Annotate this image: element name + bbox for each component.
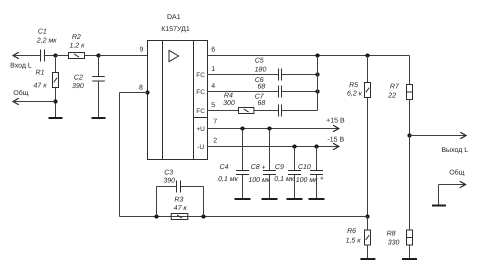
resistor R3	[171, 214, 188, 220]
terminal Общ (left arrow)	[13, 99, 18, 105]
svg-text:22: 22	[387, 92, 396, 99]
svg-text:Общ: Общ	[13, 89, 28, 97]
svg-text:R3: R3	[174, 197, 183, 204]
svg-text:100 мк: 100 мк	[248, 177, 270, 184]
svg-text:1: 1	[211, 66, 215, 73]
ground under C8	[262, 198, 278, 200]
svg-text:1,5 к: 1,5 к	[346, 238, 362, 245]
svg-text:2,2 мк: 2,2 мк	[36, 37, 57, 44]
wire C8 to ground	[269, 175, 271, 199]
capacitor C2	[92, 77, 105, 82]
svg-text:6: 6	[211, 46, 215, 53]
terminal -15 В arrow	[334, 144, 339, 150]
capacitor C9 top stem	[294, 147, 296, 171]
node C8 tap	[267, 126, 271, 130]
svg-text:+: +	[262, 164, 266, 171]
svg-text:R1: R1	[36, 69, 45, 76]
svg-text:68: 68	[258, 100, 266, 107]
wire Общ terminal to node C	[13, 101, 56, 103]
svg-text:R4: R4	[224, 92, 233, 99]
svg-text:68: 68	[258, 84, 266, 91]
wire node B to op-amp pin 9	[99, 55, 148, 57]
wire pin 5 to R4	[208, 110, 239, 112]
svg-text:47 к: 47 к	[174, 205, 188, 212]
wire Общ output stem	[438, 185, 440, 206]
node R5 top	[365, 53, 369, 57]
wire C1 to node A	[45, 55, 56, 57]
input terminal Вход L (left arrow)	[13, 53, 18, 59]
svg-text:C2: C2	[74, 75, 83, 82]
ground under R6	[360, 258, 375, 260]
node B (R2/C2/pin9 junction)	[96, 53, 100, 57]
resistor R7 top stem	[409, 56, 411, 85]
resistor R6	[365, 230, 371, 245]
svg-text:1,2 к: 1,2 к	[70, 43, 86, 50]
wire output node down to R8	[409, 136, 411, 231]
resistor R7	[407, 85, 413, 100]
svg-text:300: 300	[223, 100, 235, 107]
resistor R8	[407, 230, 413, 245]
svg-text:R5: R5	[349, 82, 358, 89]
resistor R4	[239, 108, 254, 114]
svg-text:0,1 мк: 0,1 мк	[218, 176, 238, 183]
svg-text:C3: C3	[164, 169, 173, 176]
svg-text:390: 390	[163, 177, 175, 184]
ground under C4	[235, 198, 251, 200]
wire C10 to ground	[316, 175, 318, 199]
capacitor C8 top stem	[269, 129, 271, 171]
wire correction bus vertical	[317, 56, 319, 111]
node pin 8 junction	[145, 90, 149, 94]
node bus/C5	[315, 72, 319, 76]
svg-text:Выход L: Выход L	[441, 147, 468, 154]
capacitor C8	[263, 171, 276, 175]
svg-text:C5: C5	[255, 57, 264, 64]
svg-text:К157УД1: К157УД1	[161, 26, 190, 33]
resistor R5 top stem	[367, 56, 369, 83]
svg-text:330: 330	[388, 239, 400, 246]
svg-text:390: 390	[72, 83, 84, 90]
node C4 tap	[240, 126, 244, 130]
svg-text:DA1: DA1	[167, 14, 181, 21]
resistor R1 top stem	[55, 56, 57, 73]
wire R4 to C7	[254, 110, 279, 112]
terminal Общ output arrow	[460, 182, 465, 188]
svg-text:Вход L: Вход L	[10, 63, 32, 70]
capacitor C4 top stem	[242, 129, 244, 171]
svg-text:C9: C9	[275, 164, 284, 171]
wire C9 to ground	[294, 175, 296, 199]
capacitor C10 top stem	[316, 147, 318, 171]
wire pin 8 left	[120, 92, 148, 94]
wire C7 to bus	[282, 110, 318, 112]
node C3R3 right	[201, 214, 205, 218]
wire pin 1 to C5	[208, 74, 279, 76]
capacitor C4	[236, 171, 249, 175]
ground at Общ output	[432, 205, 446, 207]
wire R7 to output node	[409, 100, 411, 136]
node bus/C6	[315, 89, 319, 93]
svg-text:7: 7	[213, 119, 217, 126]
svg-text:-15 В: -15 В	[327, 136, 344, 143]
wire pin 4 to C6	[208, 91, 279, 93]
svg-text:+U: +U	[196, 126, 205, 133]
svg-text:100 мк: 100 мк	[296, 177, 318, 184]
ground under R8	[402, 258, 417, 260]
svg-text:47 к: 47 к	[33, 82, 47, 89]
svg-text:+15 В: +15 В	[326, 118, 345, 125]
wire pin 6 rail	[208, 55, 410, 57]
wire R5 to feedback node	[367, 98, 369, 217]
svg-text:C8: C8	[251, 164, 260, 171]
svg-text:FC: FC	[196, 108, 205, 115]
terminal +15 В arrow	[334, 126, 339, 132]
capacitor C1	[41, 50, 45, 62]
wire feedback bottom	[120, 216, 368, 218]
resistor R6 top stem	[367, 217, 369, 231]
svg-text:6,2 к: 6,2 к	[347, 90, 363, 97]
svg-text:5: 5	[211, 102, 215, 109]
wire C3 branch right riser	[203, 187, 205, 217]
capacitor C3	[177, 181, 181, 193]
capacitor C6	[279, 86, 282, 98]
capacitor C2 top stem	[98, 56, 100, 77]
ground under C10	[309, 198, 325, 200]
node C (Общ tap on R1 ground stem)	[53, 99, 57, 103]
terminal Выход L arrow	[461, 133, 466, 139]
svg-text:FC: FC	[196, 72, 205, 79]
svg-text:C10: C10	[298, 164, 311, 171]
resistor R1	[53, 73, 59, 88]
svg-text:R7: R7	[390, 84, 400, 91]
svg-text:Общ: Общ	[449, 169, 464, 177]
node A (C1/R1/R2 junction)	[53, 53, 57, 57]
wire pin 2 -15V rail	[208, 146, 339, 148]
capacitor C5	[279, 69, 282, 81]
svg-text:8: 8	[139, 84, 143, 91]
ground under R1	[49, 117, 63, 119]
svg-text:R6: R6	[347, 228, 356, 235]
wire R2 to node B	[85, 55, 99, 57]
node C9 tap	[292, 144, 296, 148]
capacitor C7	[279, 105, 282, 117]
svg-text:R2: R2	[72, 34, 81, 41]
wire Общ output horizontal	[439, 184, 466, 186]
svg-text:+: +	[320, 175, 324, 182]
op-amp DA1 К157УД1 body	[148, 41, 208, 160]
wire node A to R2	[56, 55, 69, 57]
svg-text:2: 2	[213, 138, 217, 145]
svg-text:R8: R8	[387, 230, 396, 237]
wire R6 to ground	[367, 245, 369, 259]
svg-text:9: 9	[140, 46, 144, 53]
svg-text:180: 180	[255, 67, 267, 74]
capacitor C10	[310, 171, 323, 175]
ground under C2	[92, 117, 106, 119]
wire pin 7 +15V rail	[208, 128, 339, 130]
node bus top (pin6/C5 bus)	[315, 53, 319, 57]
wire R1 to ground	[55, 88, 57, 118]
resistor R2	[69, 53, 85, 59]
resistor R5	[365, 83, 371, 98]
wire C5 to bus	[282, 74, 318, 76]
wire output arrow line	[410, 135, 467, 137]
wire C6 to bus	[282, 91, 318, 93]
node output junction	[407, 133, 411, 137]
wire R8 to ground	[409, 245, 411, 259]
capacitor C9	[288, 171, 301, 175]
wire input to C1	[13, 55, 41, 57]
wire C3 branch right	[181, 186, 204, 188]
wire C4 to ground	[242, 175, 244, 199]
node C10 tap	[314, 144, 318, 148]
node C3R3 left	[154, 214, 158, 218]
svg-text:0,1 мк: 0,1 мк	[274, 176, 294, 183]
svg-text:FC: FC	[196, 89, 205, 96]
wire C2 to ground	[98, 81, 100, 118]
node feedback/R5/R6 junction	[365, 214, 369, 218]
wire feedback vertical	[119, 93, 121, 217]
svg-text:C1: C1	[38, 29, 47, 36]
ground under C9	[287, 198, 303, 200]
svg-text:C4: C4	[220, 164, 229, 171]
wire C3 branch left	[157, 186, 177, 188]
svg-text:4: 4	[211, 83, 215, 90]
svg-text:-U: -U	[197, 144, 204, 151]
wire C3 branch left riser	[156, 187, 158, 217]
